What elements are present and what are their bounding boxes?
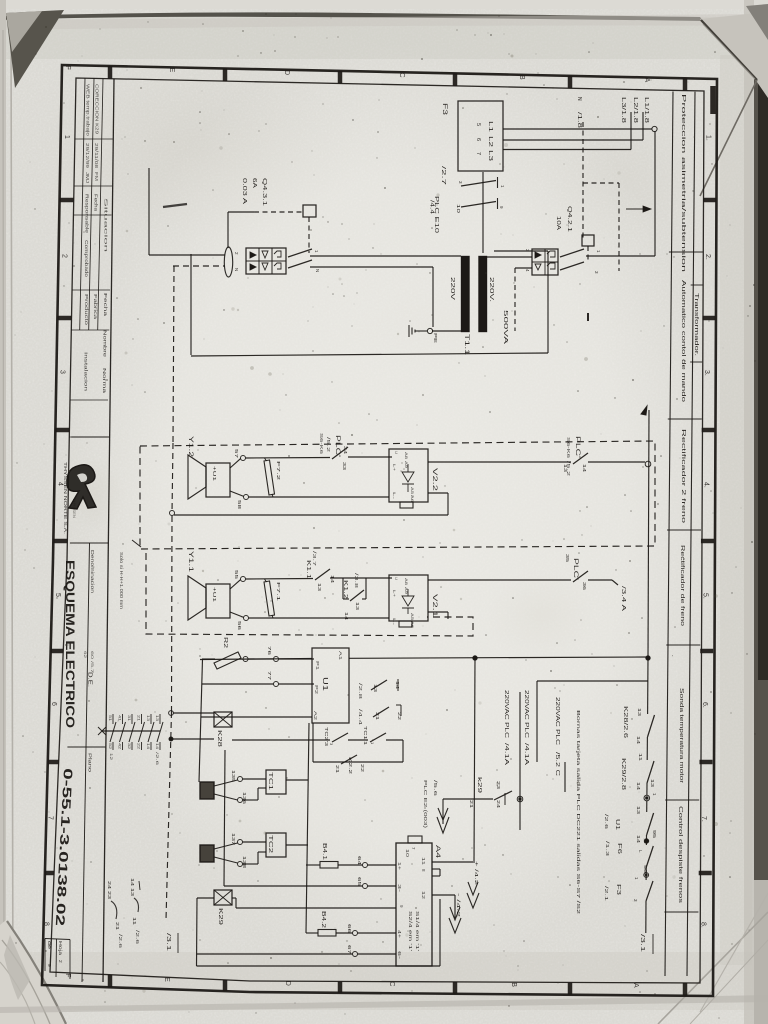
svg-text:21: 21 bbox=[469, 800, 474, 809]
terminal 55 bbox=[241, 577, 246, 582]
title table row line bbox=[71, 329, 109, 331]
svg-text:A6: A6 bbox=[410, 621, 415, 629]
terminal circle row link bbox=[170, 511, 175, 516]
frame tick right bbox=[703, 198, 716, 203]
dashed riser mid2 bbox=[171, 516, 174, 712]
wire coil bottom bbox=[173, 738, 214, 740]
frame tick right bbox=[701, 539, 714, 544]
wire V2.2 out right bbox=[428, 461, 571, 463]
svg-text:Norma: Norma bbox=[102, 368, 107, 394]
svg-text:K1.2: K1.2 bbox=[342, 580, 348, 599]
function strip divider bbox=[666, 644, 700, 646]
svg-text:F7.1: F7.1 bbox=[275, 582, 281, 602]
svg-text:C: C bbox=[388, 981, 395, 986]
svg-text:24: 24 bbox=[107, 881, 112, 890]
wire k11 to v21 bbox=[330, 577, 392, 579]
svg-text:8.: 8. bbox=[699, 922, 706, 928]
frame tick top bbox=[108, 66, 113, 79]
bank contact 6 bbox=[159, 714, 161, 724]
contact TC2-3 blade bbox=[332, 733, 348, 742]
svg-text:21: 21 bbox=[335, 765, 340, 774]
svg-text:4+: 4+ bbox=[397, 930, 402, 939]
svg-text:77: 77 bbox=[267, 671, 272, 681]
breaker contact sq 2 bbox=[274, 263, 281, 269]
dashed long left lower bbox=[166, 712, 172, 920]
svg-text:13: 13 bbox=[373, 684, 378, 693]
svg-text:Denominacion: Denominacion bbox=[90, 550, 95, 594]
breaker Q4.3.1 grid bbox=[246, 260, 286, 262]
bus chain segment 1 bbox=[647, 658, 649, 714]
bank contact 2 bbox=[122, 714, 124, 724]
svg-text:13: 13 bbox=[130, 888, 135, 897]
wire B42 right bbox=[336, 932, 353, 934]
svg-text:13: 13 bbox=[650, 779, 655, 788]
svg-text:/3.8: /3.8 bbox=[354, 573, 359, 589]
node chain 2 bbox=[644, 839, 648, 843]
frame tick bottom bbox=[338, 981, 343, 992]
svg-text:F3: F3 bbox=[441, 103, 447, 116]
contact K28/2.6 blade bbox=[648, 715, 655, 737]
wire L2 from F3 bbox=[503, 139, 643, 141]
frame tick right bbox=[699, 760, 712, 765]
node L1 junction bbox=[652, 126, 657, 131]
svg-text:A5: A5 bbox=[410, 613, 415, 621]
stray pen mark bbox=[163, 204, 187, 207]
wire block-136 bbox=[214, 794, 238, 800]
svg-text:1: 1 bbox=[652, 793, 657, 796]
svg-text:21: 21 bbox=[375, 712, 380, 721]
arrow marker bus top bbox=[641, 406, 647, 415]
svg-text:Rectificador de freno: Rectificador de freno bbox=[679, 545, 685, 626]
svg-text:+ /4.2: + /4.2 bbox=[473, 861, 479, 886]
hoja divider bbox=[55, 939, 58, 977]
svg-text:14: 14 bbox=[130, 878, 135, 887]
bus right vertical upper bbox=[648, 410, 649, 658]
contact PLC34 blade bbox=[332, 447, 348, 459]
function strip divider bbox=[668, 418, 702, 420]
bus 657 left segment bbox=[202, 658, 215, 660]
wire V2.2 L- step bbox=[428, 492, 448, 494]
hoja cell right bbox=[69, 940, 71, 980]
svg-text:C: C bbox=[398, 72, 405, 77]
svg-text:/1.8: /1.8 bbox=[576, 112, 582, 128]
wire coil top bbox=[173, 712, 214, 714]
svg-text:Q4.3.1: Q4.3.1 bbox=[261, 178, 267, 206]
svg-text:S1/4 em '1': S1/4 em '1' bbox=[415, 911, 420, 951]
transformer primary bar bbox=[461, 256, 470, 332]
contact F6 blade bbox=[646, 846, 653, 867]
svg-text:Hoja: Hoja bbox=[58, 941, 63, 956]
wire Y1.2 top bbox=[230, 459, 241, 468]
svg-text:F6: F6 bbox=[616, 843, 622, 854]
svg-text:Comprobado: Comprobado bbox=[84, 240, 89, 278]
left bus vertical bbox=[199, 659, 203, 782]
breaker tri 4 bbox=[262, 263, 268, 270]
svg-text:41: 41 bbox=[118, 715, 122, 721]
svg-text:L3: L3 bbox=[487, 150, 493, 161]
svg-text:13: 13 bbox=[317, 583, 322, 592]
svg-text:D: D bbox=[283, 70, 290, 75]
svg-text:L: L bbox=[638, 850, 643, 853]
rectifier V2.2 box bbox=[389, 449, 428, 502]
resistor B4.2 bbox=[318, 930, 336, 937]
svg-text:U: U bbox=[394, 451, 399, 454]
breaker tri 1 bbox=[250, 252, 256, 258]
varistor F7.2 bbox=[264, 460, 275, 495]
node chain 3 bbox=[644, 873, 649, 878]
svg-text:N: N bbox=[576, 97, 582, 101]
wire 136 to coil bbox=[243, 799, 259, 801]
node k29 bus bbox=[517, 796, 523, 802]
U1 contact 13-14 blade bbox=[371, 680, 387, 690]
function strip inner line bbox=[665, 92, 673, 977]
svg-text:1: 1 bbox=[500, 185, 505, 188]
svg-text:A4: A4 bbox=[434, 845, 441, 859]
Q4.2.1 grid bbox=[532, 261, 558, 263]
svg-text:1: 1 bbox=[370, 742, 375, 745]
svg-text:L1: L1 bbox=[487, 121, 493, 132]
frame tick left bbox=[57, 316, 71, 321]
bank contact 1 bbox=[112, 714, 114, 724]
terminal 135 bbox=[238, 777, 243, 782]
svg-text:6-: 6- bbox=[397, 951, 402, 960]
svg-text:8: 8 bbox=[43, 922, 50, 926]
svg-text:PLC': PLC' bbox=[574, 436, 580, 458]
wire TC1 right bbox=[286, 779, 308, 781]
Q4.2.1 box bbox=[532, 249, 558, 275]
wire tc loop right bbox=[402, 740, 404, 762]
svg-text:51: 51 bbox=[108, 715, 112, 721]
svg-text:PE: PE bbox=[433, 333, 438, 343]
breaker Q4.3.1 box bbox=[246, 248, 286, 274]
svg-text:13: 13 bbox=[563, 464, 568, 473]
title table row line bbox=[69, 436, 107, 438]
title section line bbox=[71, 436, 109, 438]
svg-text:1: 1 bbox=[314, 250, 319, 253]
svg-text:500VA: 500VA bbox=[502, 310, 508, 345]
svg-text:5: 5 bbox=[54, 593, 61, 597]
svg-text:/2.6: /2.6 bbox=[135, 930, 140, 945]
drawing frame outer border bbox=[42, 65, 717, 996]
V2.2 diode bbox=[402, 472, 414, 482]
bus L1 riser bbox=[654, 131, 656, 256]
svg-text:Proteccion asimetria/subtensio: Proteccion asimetria/subtension bbox=[680, 94, 686, 272]
bank contact 4 bbox=[141, 714, 143, 724]
svg-text:+U1: +U1 bbox=[212, 587, 217, 603]
wire 77 to U1 bbox=[279, 683, 315, 685]
svg-text:L2/1.8: L2/1.8 bbox=[632, 97, 638, 123]
K28 aux node bbox=[169, 737, 173, 741]
terminal 66 bbox=[353, 931, 358, 936]
contact U1/2.6 blade bbox=[647, 813, 654, 835]
top edge crease bbox=[0, 12, 703, 21]
wire 138 to coil bbox=[243, 863, 259, 865]
title block right border bbox=[103, 79, 114, 983]
svg-text:/2.7: /2.7 bbox=[440, 166, 446, 185]
title table row line bbox=[70, 399, 108, 401]
vertical 224 bbox=[224, 750, 225, 886]
wire U1 A2 drop bbox=[312, 723, 314, 762]
svg-text:13: 13 bbox=[355, 602, 360, 611]
terminal 76 bbox=[274, 657, 279, 662]
svg-text:D.E.: D.E. bbox=[87, 672, 93, 688]
svg-text:76: 76 bbox=[267, 646, 272, 656]
wire N dashed from left bbox=[173, 265, 225, 267]
frame tick bottom bbox=[223, 980, 228, 991]
terminal 58 bbox=[244, 495, 249, 500]
bus node circle row1 bbox=[645, 461, 651, 467]
connector block TC2 bbox=[200, 845, 214, 862]
svg-text:Control despiste frenos: Control despiste frenos bbox=[677, 806, 683, 904]
bank contact 5 bbox=[150, 714, 152, 724]
RCD trip dashed down bbox=[308, 217, 310, 253]
svg-text:/1.3: /1.3 bbox=[605, 841, 610, 857]
svg-text:64: 64 bbox=[357, 856, 362, 866]
Q4.2.1 sq 1 bbox=[547, 251, 555, 257]
PE terminal circle bbox=[427, 328, 432, 333]
wire phase into RCD bbox=[149, 254, 225, 256]
ground symbol bbox=[415, 330, 427, 332]
wire 66 row bbox=[306, 932, 318, 934]
title table row line bbox=[72, 289, 110, 291]
svg-text:PLC': PLC' bbox=[572, 558, 578, 580]
svg-text:13: 13 bbox=[155, 715, 159, 721]
svg-text:136: 136 bbox=[242, 792, 247, 805]
svg-text:Transformador.: Transformador. bbox=[693, 293, 699, 356]
resistor R2 bbox=[214, 652, 241, 669]
wire 65 to A4 bbox=[368, 885, 397, 887]
wire 57 right bbox=[246, 457, 331, 460]
svg-text:PLC E10: PLC E10 bbox=[433, 196, 439, 233]
wire 66 to A4 bbox=[358, 932, 397, 934]
svg-text:A: A bbox=[643, 78, 650, 83]
k29 coil stub bbox=[232, 897, 236, 899]
svg-text:Instalacion: Instalacion bbox=[84, 352, 89, 392]
Q4.2.1 trip square bbox=[582, 235, 594, 246]
svg-text:B: B bbox=[518, 75, 525, 80]
svg-text:Plano: Plano bbox=[88, 753, 93, 773]
contact PLC14 blade bbox=[573, 453, 588, 464]
wire RCD out phase bbox=[310, 255, 461, 257]
arrow -4.2 bbox=[449, 918, 461, 933]
svg-text:Solo si H-H+1.000 mm: Solo si H-H+1.000 mm bbox=[119, 552, 124, 609]
svg-text:R2: R2 bbox=[222, 637, 228, 648]
svg-text:L-: L- bbox=[392, 492, 397, 500]
svg-text:6: 6 bbox=[50, 702, 57, 706]
svg-text:/2.6: /2.6 bbox=[155, 752, 160, 767]
svg-text:13: 13 bbox=[636, 806, 641, 815]
title table row line bbox=[75, 138, 113, 140]
dashed box rectifier 2 freno bbox=[140, 441, 655, 549]
node dot bus bbox=[646, 656, 650, 660]
wire tc1 right bbox=[386, 739, 403, 741]
svg-text:2: 2 bbox=[61, 254, 68, 258]
svg-text:14: 14 bbox=[344, 612, 349, 621]
svg-text:14: 14 bbox=[330, 575, 335, 584]
frame tick right bbox=[700, 649, 713, 654]
right edge: paper edge + dark scan strip bbox=[744, 0, 754, 1024]
svg-text:/5.2: /5.2 bbox=[326, 437, 331, 453]
svg-text:k29: k29 bbox=[476, 777, 482, 793]
A4 notch bbox=[408, 836, 422, 843]
bank end cross bbox=[98, 727, 106, 735]
svg-text:/5.2 C: /5.2 C bbox=[554, 752, 560, 777]
wire L3 from F3 bbox=[503, 149, 631, 151]
svg-text:Y1.1: Y1.1 bbox=[187, 551, 193, 573]
svg-text:FM: FM bbox=[94, 172, 99, 182]
dashed riser 2 bbox=[618, 183, 620, 271]
svg-text:A2: A2 bbox=[313, 711, 318, 721]
relay K28 coil box bbox=[214, 712, 232, 727]
function strip divider outer bbox=[691, 284, 703, 286]
title section line bbox=[70, 542, 108, 544]
bus vertical 520 bbox=[519, 692, 521, 830]
direction arrow bbox=[626, 208, 648, 210]
RCD toroid ellipse bbox=[224, 247, 232, 277]
wire Y1.2 bot bbox=[230, 491, 244, 496]
svg-text:A1: A1 bbox=[338, 651, 343, 661]
svg-text:31: 31 bbox=[127, 715, 131, 721]
svg-text:65: 65 bbox=[357, 877, 362, 887]
wire mains phase vertical bbox=[148, 168, 150, 255]
svg-text:22: 22 bbox=[137, 743, 141, 749]
svg-text:220V.: 220V. bbox=[488, 277, 494, 303]
F3 switch blade 2 bbox=[461, 202, 496, 208]
Q4.2.1 blade 2 bbox=[560, 262, 584, 270]
title section line bbox=[67, 746, 105, 748]
Q4.2.1 tri 2 bbox=[535, 264, 541, 270]
svg-text:8: 8 bbox=[421, 869, 426, 872]
solenoid Y1.1 box bbox=[206, 584, 230, 618]
svg-text:2: 2 bbox=[234, 252, 239, 255]
frame tick left bbox=[45, 871, 54, 876]
bus chain segment 6 bbox=[645, 867, 647, 880]
svg-text:6.: 6. bbox=[701, 702, 708, 708]
svg-text:Sonda temperatura motor: Sonda temperatura motor bbox=[678, 688, 684, 783]
contact K29/2.8 blade bbox=[647, 761, 654, 783]
svg-text:6: 6 bbox=[475, 138, 481, 141]
svg-text:14: 14 bbox=[582, 464, 587, 473]
svg-text:N: N bbox=[315, 269, 320, 272]
bus chain segment 5 bbox=[645, 835, 647, 845]
thyssen logo bbox=[67, 465, 96, 509]
svg-text:V2.1: V2.1 bbox=[431, 594, 438, 618]
svg-text:3: 3 bbox=[458, 181, 463, 184]
wire left bus to 77 bbox=[202, 683, 274, 685]
RCD trip square bbox=[303, 205, 316, 217]
svg-text:PLC': PLC' bbox=[334, 435, 340, 457]
A4 pin8 stub bbox=[432, 868, 440, 870]
svg-text:95: 95 bbox=[652, 830, 657, 839]
card A4 box bbox=[396, 843, 432, 966]
wire loop right vertical bbox=[547, 251, 549, 353]
svg-text:10: 10 bbox=[456, 204, 461, 214]
left edge shading bbox=[0, 0, 6, 1024]
terminal 77 bbox=[274, 682, 279, 687]
svg-text:F3: F3 bbox=[615, 884, 621, 895]
breaker tri 2 bbox=[250, 264, 256, 270]
svg-text:14: 14 bbox=[636, 782, 641, 791]
wire U1 A2 left bbox=[201, 716, 312, 718]
wire V2.1 out right bbox=[428, 579, 571, 581]
svg-text:3-: 3- bbox=[397, 884, 402, 893]
wire pin11 right bbox=[432, 861, 473, 863]
svg-text:10A: 10A bbox=[555, 216, 561, 231]
terminal 67 bbox=[353, 952, 358, 957]
bus chain segment 3 bbox=[646, 783, 648, 795]
terminal 138 bbox=[238, 862, 243, 867]
terminal 137 bbox=[238, 840, 243, 845]
bus chain segment 7 bbox=[645, 901, 647, 933]
svg-text:K1.1: K1.1 bbox=[305, 560, 311, 579]
svg-text:33: 33 bbox=[342, 462, 347, 471]
bus chain segment 4 bbox=[646, 801, 648, 812]
wire 9 row bbox=[236, 907, 396, 909]
wire V2.1 L- step bbox=[428, 611, 448, 613]
svg-text:62: 62 bbox=[83, 651, 88, 659]
svg-text:THYSSEN NORTE S.A.: THYSSEN NORTE S.A. bbox=[63, 462, 68, 534]
frame tick left bbox=[55, 428, 69, 433]
wire loop bottom bbox=[191, 353, 548, 356]
arrow +4.2 bbox=[467, 893, 479, 908]
frame tick bottom bbox=[108, 975, 113, 988]
K28 aux terminal circle bbox=[169, 711, 174, 716]
svg-text:U1: U1 bbox=[614, 819, 620, 830]
wire 67 to A4 bbox=[358, 953, 397, 955]
F3 switch wire bbox=[482, 172, 484, 253]
wire RCD out N bbox=[310, 266, 433, 268]
contactor TC1 coil bbox=[266, 770, 286, 794]
fuse block F3 box bbox=[458, 101, 503, 171]
svg-text:THYSSEN: THYSSEN bbox=[72, 498, 76, 519]
terminal 136 bbox=[238, 798, 243, 803]
svg-text:Nombre: Nombre bbox=[103, 330, 108, 358]
terminal 57 bbox=[241, 456, 246, 461]
svg-text:/2.8: /2.8 bbox=[358, 683, 363, 700]
wire N down to PE bbox=[432, 267, 434, 327]
dashed riser mid bbox=[172, 443, 173, 513]
svg-text:- /4.2: - /4.2 bbox=[455, 893, 461, 918]
bus C stub bbox=[564, 762, 566, 792]
wire L1 from F3 bbox=[503, 128, 652, 130]
svg-text:57: 57 bbox=[234, 449, 239, 459]
contact bank line bbox=[102, 730, 160, 732]
frame tick bottom bbox=[683, 983, 688, 996]
function strip mid line bbox=[687, 92, 695, 976]
contact K1.2 blade bbox=[350, 590, 364, 601]
svg-text:220VAC PLC: 220VAC PLC bbox=[503, 690, 509, 739]
wire Y1.1 top bbox=[230, 580, 241, 589]
wire loop top stub bbox=[494, 250, 548, 252]
Q4.2.1 blade 1 bbox=[560, 249, 584, 257]
svg-text:D: D bbox=[284, 981, 291, 986]
svg-text:Fecha: Fecha bbox=[103, 293, 108, 317]
svg-text:7: 7 bbox=[411, 847, 416, 850]
wire drop 473 lower bbox=[474, 658, 475, 863]
terminal 64 bbox=[363, 863, 368, 868]
svg-text:4: 4 bbox=[56, 482, 63, 486]
bank contact 3 bbox=[131, 714, 133, 724]
frame tick top bbox=[568, 76, 573, 88]
svg-text:/2.6: /2.6 bbox=[604, 814, 609, 830]
svg-text:36: 36 bbox=[582, 582, 587, 591]
svg-text:PLC E2 (003): PLC E2 (003) bbox=[423, 780, 428, 829]
node dot left bbox=[473, 656, 477, 660]
drawing frame inner border bbox=[50, 78, 704, 983]
RCD trip link solid bbox=[227, 212, 229, 248]
bus 308 vertical bbox=[306, 723, 309, 933]
svg-text:9: 9 bbox=[46, 964, 52, 967]
